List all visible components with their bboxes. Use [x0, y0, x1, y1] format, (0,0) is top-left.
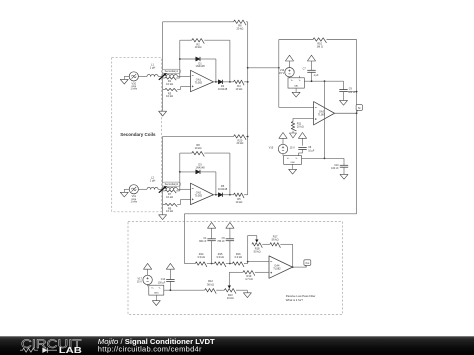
svg-text:56 kΩ: 56 kΩ — [207, 282, 214, 286]
svg-text:3.3 kΩ: 3.3 kΩ — [216, 255, 224, 259]
svg-text:56 kΩ: 56 kΩ — [272, 238, 279, 242]
svg-text:390 nF: 390 nF — [199, 240, 207, 243]
svg-text:10 kΩ: 10 kΩ — [166, 195, 173, 199]
svg-text:LAB: LAB — [59, 346, 83, 355]
svg-text:V15: V15 — [269, 146, 274, 149]
svg-text:3.3 kΩ: 3.3 kΩ — [197, 255, 205, 259]
svg-text:10 kΩ: 10 kΩ — [235, 87, 242, 91]
svg-text:.1 µF: .1 µF — [313, 74, 319, 77]
svg-text:http://circuitlab.com/cembd4r: http://circuitlab.com/cembd4r — [98, 345, 202, 354]
svg-text:Secondary Coils: Secondary Coils — [120, 132, 156, 137]
svg-text:20 kΩ: 20 kΩ — [236, 27, 243, 31]
svg-text:OA2: OA2 — [290, 161, 295, 164]
svg-text:100 nF: 100 nF — [331, 167, 339, 170]
svg-text:Secondary2: Secondary2 — [165, 183, 179, 186]
svg-text:4.7 kΩ: 4.7 kΩ — [245, 277, 253, 281]
svg-text:15 V: 15 V — [279, 72, 284, 75]
svg-text:10 kΩ: 10 kΩ — [297, 124, 304, 128]
svg-text:3.3 kΩ: 3.3 kΩ — [234, 255, 242, 259]
svg-text:10 kΩ: 10 kΩ — [235, 200, 242, 204]
svg-text:10 kΩ: 10 kΩ — [227, 296, 234, 300]
svg-text:10 kΩ: 10 kΩ — [195, 45, 202, 49]
svg-text:1N4148: 1N4148 — [218, 87, 228, 91]
svg-text:V-: V- — [299, 80, 301, 82]
svg-text:1 µH: 1 µH — [150, 65, 156, 69]
svg-text:1N4148: 1N4148 — [195, 165, 205, 169]
svg-text:20 kΩ: 20 kΩ — [236, 141, 243, 145]
svg-text:10 kΩ: 10 kΩ — [195, 146, 202, 150]
svg-text:10 µF: 10 µF — [308, 149, 315, 152]
svg-text:OA1: OA1 — [294, 85, 299, 88]
svg-text:100 µF: 100 µF — [158, 281, 166, 284]
svg-text:15 V: 15 V — [290, 146, 295, 149]
svg-text:10 kΩ: 10 kΩ — [166, 94, 173, 98]
svg-text:TL082: TL082 — [273, 267, 281, 271]
svg-text:Out: Out — [305, 262, 309, 265]
svg-text:What is it for?: What is it for? — [286, 298, 304, 302]
svg-text:Secondary1: Secondary1 — [165, 70, 179, 73]
svg-text:50 kΩ: 50 kΩ — [254, 250, 261, 254]
svg-text:780 nF: 780 nF — [217, 240, 225, 243]
svg-text:10 kΩ: 10 kΩ — [166, 209, 173, 213]
svg-text:TL082: TL082 — [195, 193, 203, 197]
svg-text:V-: V- — [159, 287, 161, 289]
svg-text:1 µH: 1 µH — [150, 178, 156, 182]
svg-text:TL082: TL082 — [195, 80, 203, 84]
svg-text:1 kHz: 1 kHz — [130, 87, 137, 91]
svg-text:10 kΩ: 10 kΩ — [166, 82, 173, 86]
svg-text:GND: GND — [154, 293, 159, 295]
svg-text:1N4148: 1N4148 — [218, 187, 228, 191]
svg-text:1 kHz: 1 kHz — [130, 200, 137, 204]
svg-text:V-: V- — [296, 158, 298, 160]
svg-text:1M Ω: 1M Ω — [317, 45, 323, 49]
svg-text:15 V: 15 V — [137, 281, 142, 284]
svg-text:1N4148: 1N4148 — [195, 64, 205, 68]
